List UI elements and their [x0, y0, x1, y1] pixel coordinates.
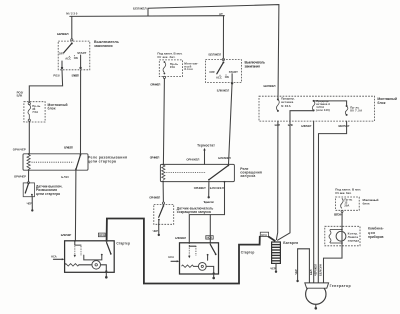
svg-text:ОРН/ЧЕР: ОРН/ЧЕР [13, 147, 26, 151]
svg-text:РОЗ/: РОЗ/ [53, 74, 60, 78]
svg-text:БЛК/ЧЕР: БЛК/ЧЕР [301, 124, 311, 128]
svg-text:ЖЕЛ/ЧЕР: ЖЕЛ/ЧЕР [338, 124, 349, 128]
svg-text:АТ: АТ [219, 12, 223, 16]
svg-text:БЛК/: БЛК/ [61, 175, 69, 179]
svg-text:БЛК/ЖЕЛ: БЛК/ЖЕЛ [218, 156, 231, 160]
svg-text:БЛК: БЛК [17, 93, 23, 97]
svg-text:АСС: АСС [65, 57, 71, 61]
svg-text:М/230: М/230 [66, 12, 77, 16]
svg-text:START: START [229, 70, 238, 74]
svg-text:цепи стартера: цепи стартера [88, 159, 116, 163]
svg-text:ЧЕР: ЧЕР [27, 202, 33, 206]
svg-text:блок: блок [363, 201, 370, 205]
svg-text:АСС: АСС [216, 76, 222, 80]
svg-text:БЛК/ЖЕЛ: БЛК/ЖЕЛ [217, 88, 230, 92]
svg-text:20А: 20А [344, 204, 349, 208]
svg-text:НСА: НСА [51, 254, 57, 258]
svg-text:ОРН/ЖЕЛ: ОРН/ЖЕЛ [150, 156, 160, 160]
svg-text:БЛК/ЧЕР: БЛК/ЧЕР [61, 233, 72, 237]
svg-text:БЕЛ/ЖЕЛ: БЕЛ/ЖЕЛ [209, 52, 222, 56]
svg-text:БЛК/БЕЛ: БЛК/БЕЛ [72, 74, 79, 78]
svg-text:7.5А: 7.5А [32, 110, 38, 114]
svg-text:зажигания: зажигания [94, 44, 113, 48]
svg-text:От акк. бат.: От акк. бат. [157, 55, 175, 59]
svg-text:ON: ON [225, 75, 229, 79]
svg-text:80 7.5А: 80 7.5А [350, 109, 362, 113]
svg-text:БЕЛ/ЖЕЛ: БЕЛ/ЖЕЛ [133, 6, 147, 10]
svg-text:Стартер: Стартер [241, 251, 255, 255]
svg-text:Комбина-: Комбина- [368, 227, 384, 231]
svg-text:зажигания: зажигания [245, 64, 261, 68]
svg-text:ЧЕР: ЧЕР [270, 267, 276, 271]
svg-text:ОРН/ЖНТ: ОРН/ЖНТ [194, 186, 206, 190]
svg-text:Термостат: Термостат [197, 143, 215, 147]
svg-text:НСА: НСА [99, 233, 105, 237]
svg-text:НСА: НСА [261, 233, 267, 237]
svg-text:ЧЕР: ЧЕР [294, 269, 298, 275]
svg-text:БЕЛ/СИН: БЕЛ/СИН [318, 264, 322, 276]
svg-text:блок: блок [48, 106, 56, 110]
svg-text:Термостат: Термостат [203, 200, 214, 204]
svg-text:ОРН/ЖЕЛ: ОРН/ЖЕЛ [186, 158, 199, 162]
svg-text:ЧЕР: ЧЕР [153, 229, 159, 233]
svg-text:Генератор: Генератор [330, 284, 351, 288]
svg-text:НСА: НСА [168, 255, 174, 259]
svg-text:заряда: заряда [348, 238, 360, 242]
svg-text:OFF: OFF [59, 52, 65, 56]
svg-text:От акк. бат.: От акк. бат. [335, 191, 351, 195]
svg-text:ON: ON [74, 56, 78, 60]
svg-text:ОРН/ЖЕЛ: ОРН/ЖЕЛ [149, 195, 160, 199]
svg-text:START: START [77, 51, 86, 55]
svg-text:НСА: НСА [207, 236, 213, 240]
svg-text:БЛК/ЖЕЛ: БЛК/ЖЕЛ [210, 186, 224, 190]
svg-text:сокращения запуска: сокращения запуска [177, 210, 211, 214]
svg-text:приборов: приборов [368, 235, 384, 239]
svg-text:ОРН/ЧЕР: ОРН/ЧЕР [14, 174, 26, 178]
svg-text:блок: блок [184, 67, 193, 71]
svg-text:OFF: OFF [209, 70, 215, 74]
svg-text:БЛК: БЛК [288, 123, 294, 127]
svg-text:запуска: запуска [240, 174, 255, 178]
svg-text:ОРН/ЖЕЛ: ОРН/ЖЕЛ [150, 82, 160, 86]
svg-text:БЕЛ: БЕЛ [309, 269, 313, 275]
svg-text:цепи стартера: цепи стартера [36, 192, 60, 196]
svg-text:15А: 15А [170, 65, 175, 69]
svg-text:БЛК/БЕЛ: БЛК/БЕЛ [64, 146, 73, 150]
svg-text:БЛК/ЖЕЛ: БЛК/ЖЕЛ [175, 236, 186, 240]
svg-text:БЕЛ/ЖЕЛ: БЕЛ/ЖЕЛ [264, 84, 276, 88]
svg-text:Батарея: Батарея [283, 241, 298, 245]
svg-text:блок: блок [377, 101, 385, 105]
svg-text:N 30А: N 30А [281, 104, 291, 108]
svg-text:Стартер: Стартер [116, 241, 130, 245]
svg-text:(или 140): (или 140) [316, 108, 330, 112]
svg-text:БЕЛ/СИН: БЕЛ/СИН [334, 212, 342, 216]
svg-text:БЕЛ/ЖЕЛ: БЕЛ/ЖЕЛ [57, 32, 69, 36]
svg-text:ЧЕР/ЖЕЛ: ЧЕР/ЖЕЛ [314, 264, 318, 276]
